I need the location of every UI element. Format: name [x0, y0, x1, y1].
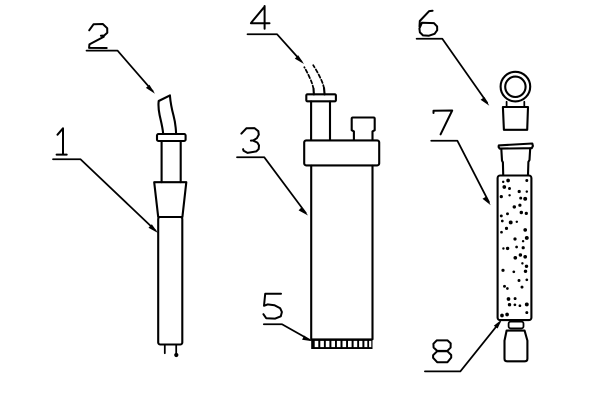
bottom stopper 8	[505, 331, 528, 362]
label 8 leader	[425, 322, 500, 371]
label 2 arrowhead	[146, 85, 155, 94]
prong dot	[174, 353, 178, 357]
label 6 digit	[419, 11, 437, 36]
label 4 arrowhead	[295, 55, 304, 64]
column body 7	[498, 176, 532, 321]
probe neck	[162, 141, 181, 182]
probe tapered collar	[154, 182, 186, 217]
packing dots	[500, 179, 529, 318]
label 3 arrowhead	[299, 207, 308, 216]
label 1 digit	[57, 128, 67, 154]
label 7 leader	[431, 141, 489, 202]
label 5 arrowhead	[302, 336, 312, 342]
tube neck on vessel	[311, 101, 330, 140]
column joint	[501, 148, 530, 174]
label 6 arrowhead	[481, 97, 490, 106]
tube 4 (curved dashed tube)	[314, 88, 325, 95]
label 1 arrowhead	[149, 224, 159, 233]
probe prongs	[165, 345, 176, 355]
bottom neck band	[509, 322, 524, 329]
probe body 1	[158, 217, 182, 345]
right port on vessel	[352, 118, 375, 141]
tube flange on vessel	[306, 94, 336, 101]
label 7 arrowhead	[483, 197, 491, 206]
label 4 digit	[251, 6, 270, 29]
label 8 arrowhead	[494, 319, 502, 328]
label 2 leader	[87, 51, 153, 92]
column top lip	[499, 144, 533, 149]
flange collar on probe	[157, 134, 186, 141]
strainer band 5	[311, 338, 372, 349]
label 5 leader	[264, 324, 310, 340]
label 4 leader	[248, 34, 302, 61]
label 1 leader	[53, 159, 156, 230]
label 2 digit	[89, 24, 107, 48]
vessel top cap	[304, 140, 379, 165]
label 3 leader	[237, 157, 306, 213]
top stopper block	[503, 107, 528, 130]
label 8 digit	[433, 340, 451, 362]
cable 2 (bent tube at top of probe)	[158, 95, 176, 134]
ring 6 outer	[501, 72, 531, 102]
ring 6 inner	[505, 77, 525, 97]
label 5 digit	[263, 294, 282, 319]
ring neck	[507, 102, 525, 107]
label 3 digit	[241, 128, 259, 153]
vessel body 3	[311, 165, 372, 339]
label 7 digit	[434, 111, 453, 135]
label 6 leader	[417, 39, 488, 103]
